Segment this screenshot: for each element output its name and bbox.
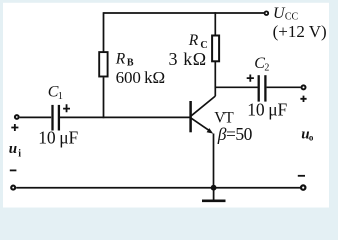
ground [213,188,215,201]
svg-text:o: o [309,132,314,142]
minus output [298,175,305,177]
transistor VT base bar [189,101,192,132]
wire RB top [103,12,105,51]
wire collector vertical [214,61,216,96]
resistor RB [99,52,107,76]
svg-text:β=50: β=50 [217,124,253,144]
wire input [20,116,52,118]
svg-text:(+12 V): (+12 V) [273,22,327,41]
svg-text:600 kΩ: 600 kΩ [116,68,165,87]
resistor RC [212,36,219,62]
terminal output top [302,85,306,89]
plus C1 [63,104,70,112]
terminal UCC [265,11,269,15]
svg-text:u: u [9,141,17,157]
terminal input bottom [11,186,15,190]
wire RB bottom [103,77,105,118]
terminal output bottom [301,185,305,189]
svg-text:2: 2 [264,63,269,74]
node emitter-ground junction [211,185,217,191]
wire top rail [104,12,265,14]
svg-text:R: R [188,32,199,49]
svg-text:10 μF: 10 μF [38,127,78,147]
wire bottom rail [16,187,300,189]
capacitor C1 [51,105,53,131]
transistor emitter lead [191,118,209,130]
svg-text:3 kΩ: 3 kΩ [169,49,207,69]
minus input [10,169,17,171]
wire C2 to output [267,86,301,88]
plus output [300,96,306,102]
transistor collector lead [191,96,215,116]
terminal input top [15,115,19,119]
plus input [11,124,18,131]
svg-text:i: i [18,149,21,160]
wire emitter vertical [213,134,215,188]
svg-text:CC: CC [285,12,299,23]
svg-text:10 μF: 10 μF [247,99,287,119]
wire RC top [214,12,216,35]
wire collector to C2 [215,86,258,88]
svg-text:R: R [115,50,126,67]
plus C2 [247,75,254,82]
svg-text:1: 1 [58,91,63,102]
transistor emitter arrow [207,128,214,134]
capacitor C2 [258,75,260,101]
wire base [60,116,190,118]
